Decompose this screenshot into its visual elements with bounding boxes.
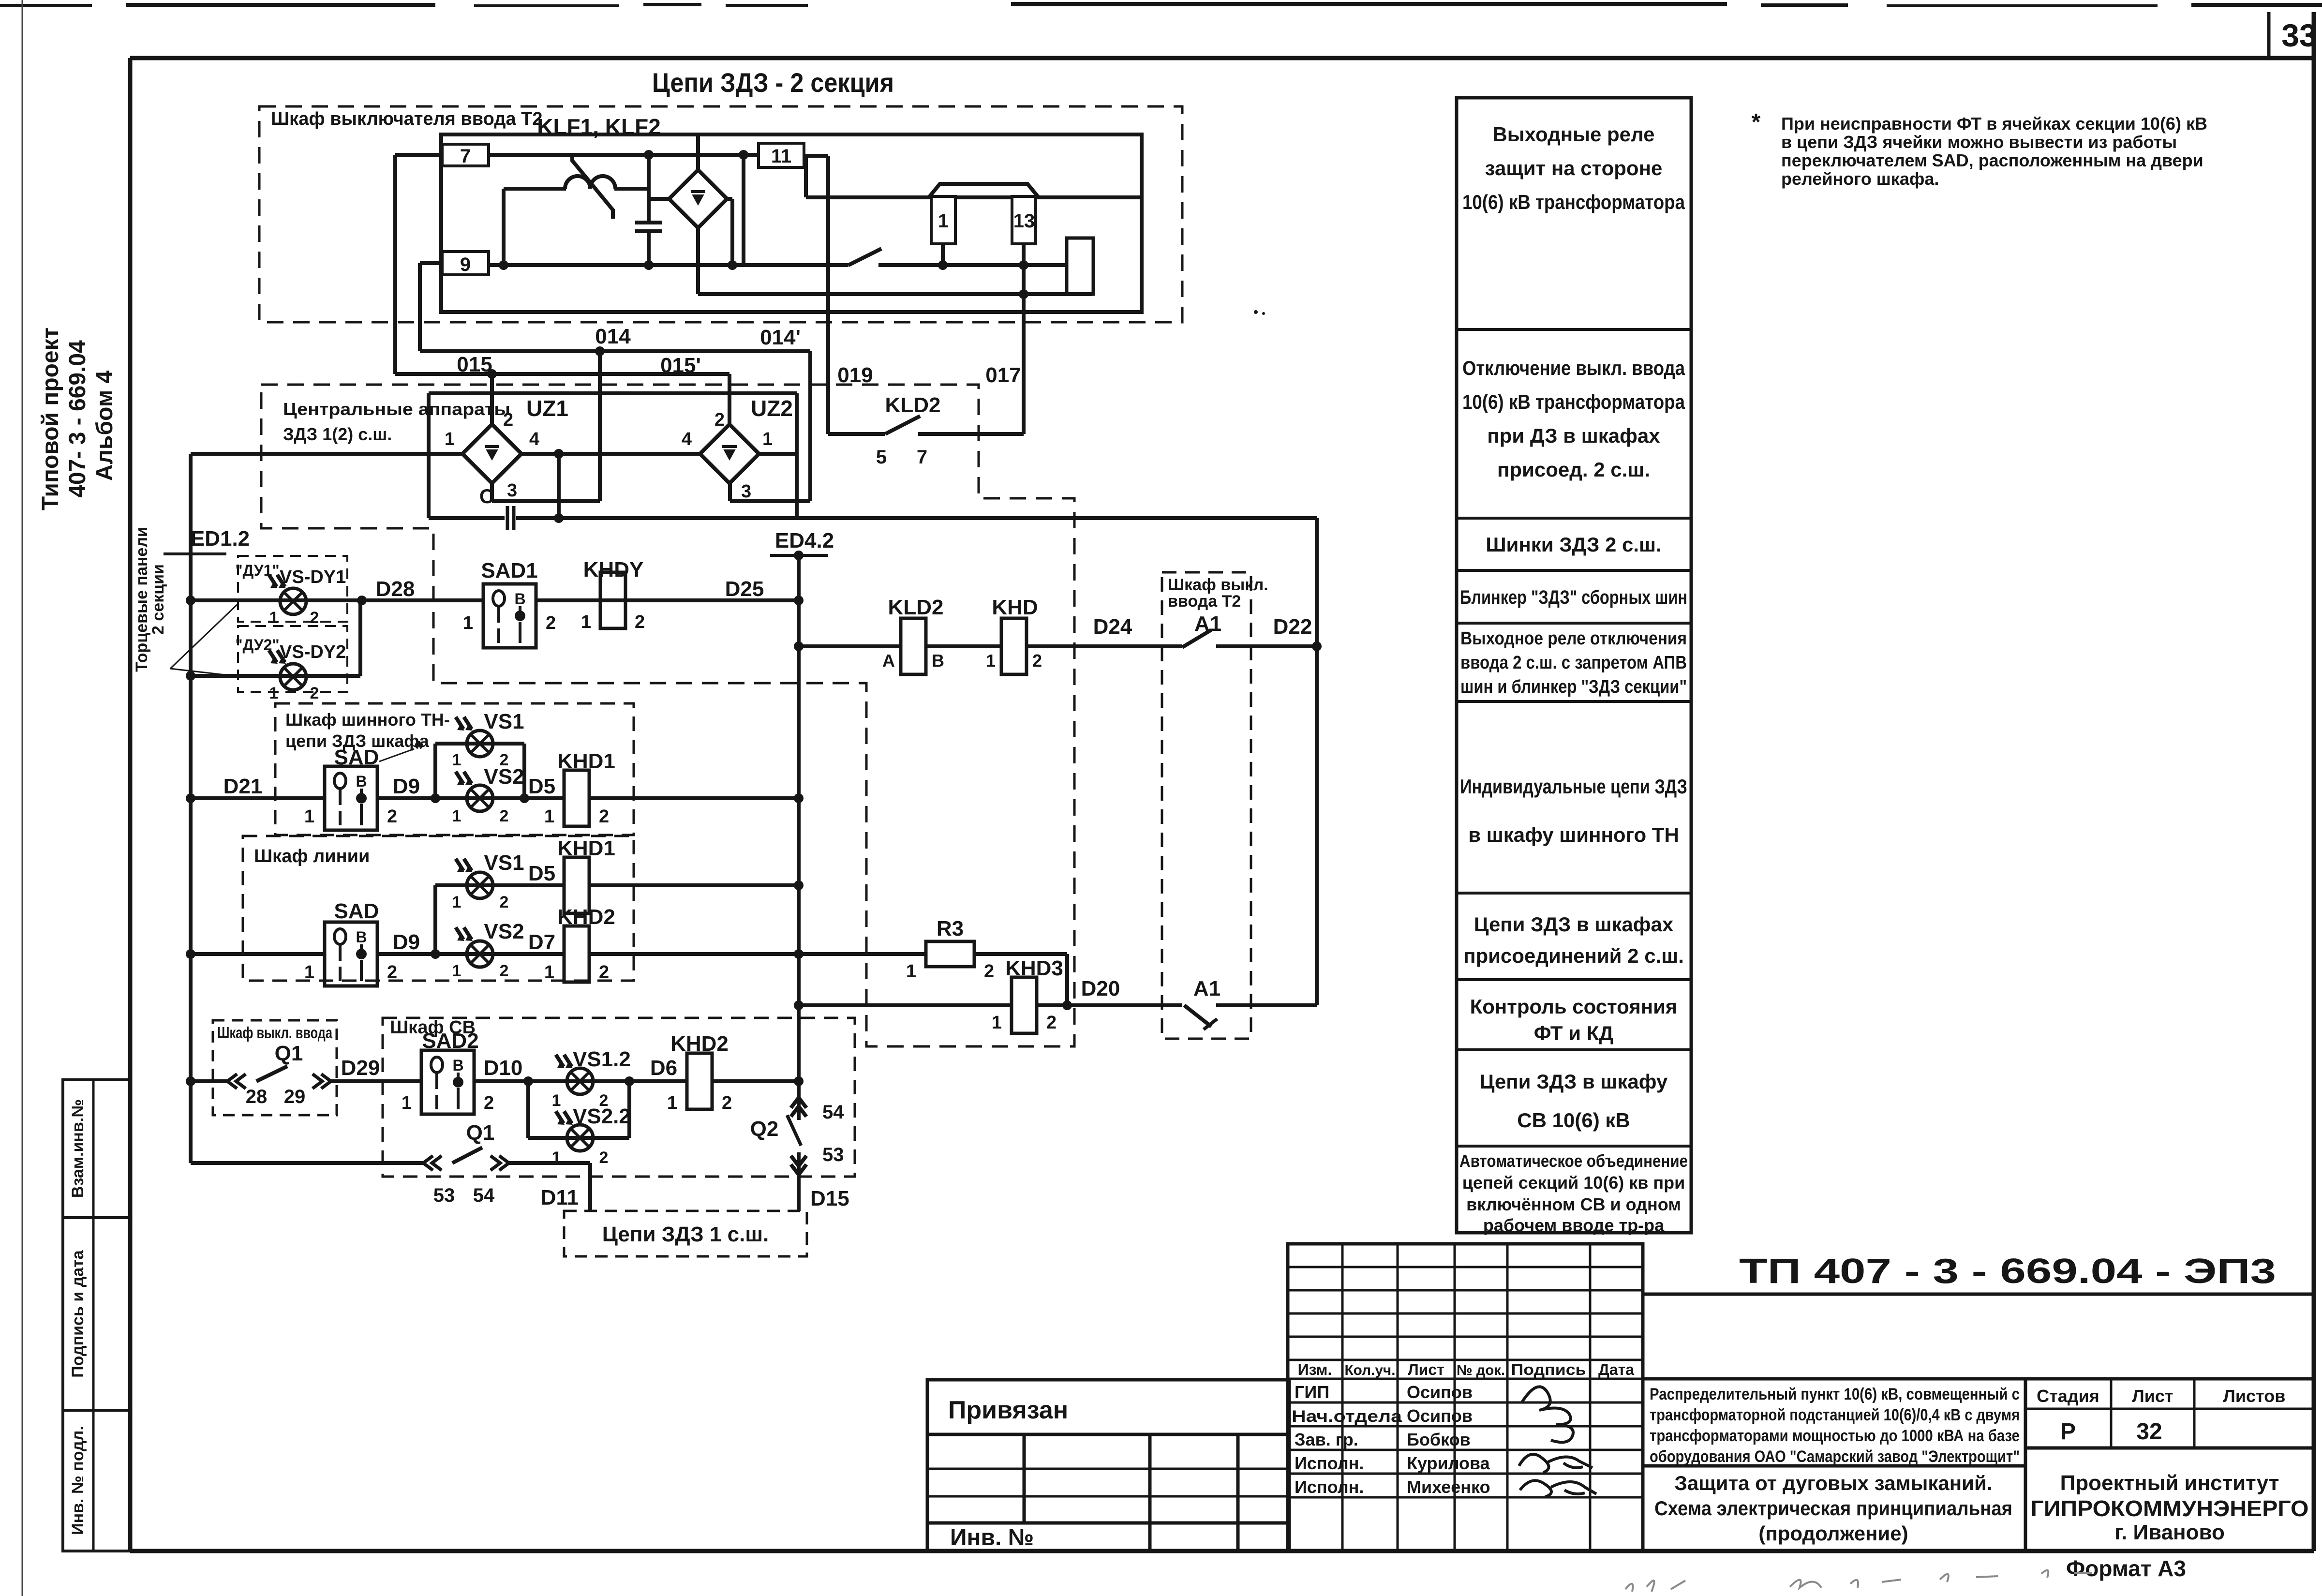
svg-text:2: 2 (503, 410, 513, 430)
svg-text:Взам.инв.№: Взам.инв.№ (69, 1099, 87, 1198)
wire vertical 1341 with capacitor (644, 150, 654, 270)
wire D29 row (191, 1079, 421, 1083)
solid box UZ1 UZ2 (429, 393, 797, 518)
svg-text:Отключение выкл. ввода: Отключение выкл. ввода (1462, 357, 1685, 379)
dashed box Шкаф шинного ТН (275, 703, 634, 835)
wire 014' drop to UZ2 pin3 (730, 351, 810, 501)
svg-text:UZ1: UZ1 (526, 396, 568, 421)
wire rail 014 (420, 346, 810, 356)
svg-text:014': 014' (760, 326, 801, 349)
svg-text:защит на стороне: защит на стороне (1485, 157, 1663, 179)
asterisk leader (379, 737, 423, 761)
switch SAD (ТН) (325, 766, 377, 830)
svg-text:присоединений 2 с.ш.: присоединений 2 с.ш. (1463, 944, 1684, 967)
svg-text:VS-DY1: VS-DY1 (280, 567, 346, 587)
wire terminal row y408 (806, 195, 1142, 199)
wire relay left lead (1024, 263, 1067, 267)
svg-text:"ДУ2": "ДУ2" (235, 636, 279, 654)
svg-text:ввода 2 с.ш. с запретом АПВ: ввода 2 с.ш. с запретом АПВ (1460, 653, 1687, 673)
lamp VS-DY1 (280, 588, 306, 614)
svg-text:Кол.уч.: Кол.уч. (1345, 1362, 1396, 1378)
svg-text:Блинкер "ЗДЗ" сборных шин: Блинкер "ЗДЗ" сборных шин (1460, 587, 1687, 608)
svg-text:оборудования ОАО "Самарский за: оборудования ОАО "Самарский завод "Элект… (1650, 1447, 2020, 1466)
surge suppressor symbol (565, 153, 615, 219)
svg-text:Схема электрическая принципиал: Схема электрическая принципиальная (1654, 1497, 2012, 1520)
svg-text:Проектный институт: Проектный институт (2060, 1471, 2279, 1495)
varistor branch vertical (502, 189, 506, 265)
svg-text:R3: R3 (937, 917, 964, 940)
svg-text:ГИП: ГИП (1295, 1382, 1329, 1402)
wire 019 net vertical (826, 156, 830, 434)
svg-text:D9: D9 (393, 775, 420, 798)
wire diamond top lead (696, 136, 700, 170)
dashed box Шкаф выкл ввода Т2 right (1162, 572, 1251, 1039)
right description table (1457, 98, 1691, 1233)
blade Q1 lower (452, 1148, 482, 1163)
svg-text:VS1: VS1 (484, 851, 524, 875)
svg-text:1: 1 (552, 1091, 561, 1110)
svg-text:1: 1 (402, 1093, 412, 1113)
mechanical link bracket over 1-13 (929, 184, 1039, 197)
table row 1 text (1462, 123, 1685, 213)
net ED1.2 (164, 527, 250, 554)
svg-text:Бобков: Бобков (1407, 1430, 1471, 1449)
svg-text:цепей секций 10(6) кв при: цепей секций 10(6) кв при (1462, 1173, 1685, 1193)
svg-text:Q2: Q2 (750, 1117, 779, 1141)
svg-text:32: 32 (2136, 1419, 2162, 1445)
table row 6 text (1460, 775, 1687, 846)
resistor R3 (926, 941, 974, 967)
svg-text:B: B (452, 1057, 463, 1074)
dashed box Шкаф линии (243, 836, 634, 981)
svg-text:D11: D11 (541, 1186, 579, 1209)
wire diamond bottom loop to relay (698, 228, 1092, 299)
blade Q1 upper (256, 1066, 287, 1081)
wire terminal1 lead (938, 244, 948, 270)
page number 33 box (2269, 12, 2317, 58)
wire 9 row right part (878, 263, 1024, 267)
rectifier UZ2 (700, 424, 759, 483)
svg-text:1: 1 (445, 429, 455, 449)
svg-text:28: 28 (246, 1086, 268, 1107)
svg-text:трансформаторами мощностью до: трансформаторами мощностью до 1000 кВА н… (1650, 1427, 2020, 1445)
svg-text:017: 017 (985, 363, 1021, 387)
capacitor C plates (507, 506, 514, 530)
diode bridge KLF (669, 170, 727, 228)
revision table (1288, 1244, 1643, 1551)
svg-text:9: 9 (460, 254, 471, 275)
svg-text:2: 2 (310, 609, 319, 627)
svg-text:Шкаф шинного ТН-: Шкаф шинного ТН- (285, 710, 450, 730)
switch SAD2 (421, 1050, 474, 1114)
svg-text:Контроль состояния: Контроль состояния (1470, 995, 1678, 1018)
svg-text:1: 1 (544, 806, 554, 827)
svg-text:Нач.отдела: Нач.отдела (1292, 1407, 1402, 1426)
wire KHD3 row (794, 1000, 1182, 1010)
bus bottom with capacitor C (429, 516, 1317, 520)
terminal 1 (931, 196, 955, 244)
svg-text:1: 1 (304, 806, 314, 827)
svg-text:включённом СВ и одном: включённом СВ и одном (1466, 1194, 1681, 1214)
svg-text:53: 53 (433, 1185, 455, 1206)
svg-text:VS1: VS1 (484, 710, 524, 733)
lamp VS1 line (467, 872, 493, 898)
svg-text:B: B (514, 590, 525, 608)
svg-text:ЗДЗ 1(2) с.ш.: ЗДЗ 1(2) с.ш. (283, 424, 392, 444)
dashed box Шкаф выкл. ввода (213, 1020, 337, 1115)
contact A1 lower blade (1184, 1005, 1217, 1029)
svg-text:KHDY: KHDY (583, 558, 644, 582)
svg-text:Зав. гр.: Зав. гр. (1295, 1430, 1358, 1449)
svg-text:"ДУ1": "ДУ1" (235, 562, 279, 579)
left attribute boxes (Взам.инв.№ / Подпись и дата / Инв.№ подл.) (63, 1080, 130, 1551)
svg-text:A: A (882, 651, 895, 671)
terminal 7 (442, 144, 489, 167)
svg-text:ED4.2: ED4.2 (775, 529, 834, 552)
svg-text:KHD1: KHD1 (557, 749, 615, 773)
svg-text:D9: D9 (393, 930, 420, 954)
lamp VS2.2 (567, 1125, 593, 1151)
wire 7 row (489, 153, 759, 157)
signatures (1519, 1387, 1596, 1497)
svg-text:SAD: SAD (334, 746, 379, 769)
svg-text:СВ 10(6) кВ: СВ 10(6) кВ (1517, 1109, 1630, 1132)
svg-text:Подпись и дата: Подпись и дата (69, 1250, 87, 1378)
blade Q2 (787, 1115, 801, 1146)
table row 10 text (1459, 1151, 1688, 1235)
sheet left edge line (22, 0, 23, 1596)
svg-text:KHD2: KHD2 (557, 905, 615, 929)
svg-text:Осипов: Осипов (1407, 1382, 1473, 1402)
svg-text:D25: D25 (725, 577, 764, 601)
svg-text:D10: D10 (484, 1056, 523, 1080)
svg-text:1: 1 (452, 893, 461, 911)
svg-text:1: 1 (452, 751, 461, 769)
svg-text:2: 2 (500, 893, 509, 911)
svg-text:2: 2 (635, 612, 645, 632)
svg-text:ED1.2: ED1.2 (191, 527, 250, 551)
svg-text:7: 7 (917, 447, 927, 468)
svg-text:2: 2 (546, 613, 556, 633)
revision names (1292, 1382, 1490, 1497)
leader lines (170, 604, 238, 676)
svg-text:1: 1 (304, 962, 314, 983)
svg-text:Инв. №: Инв. № (950, 1525, 1034, 1551)
svg-text:D6: D6 (650, 1056, 677, 1080)
lamp VS1.2 (567, 1068, 593, 1094)
svg-text:Цепи ЗДЗ в шкафу: Цепи ЗДЗ в шкафу (1480, 1070, 1668, 1093)
lamp VS1 ТН branch (435, 744, 524, 798)
wire D20 right segment (1216, 1003, 1317, 1007)
svg-text:Центральные аппараты: Центральные аппараты (283, 399, 510, 419)
svg-text:Исполн.: Исполн. (1295, 1477, 1364, 1497)
svg-text:Автоматическое объединение: Автоматическое объединение (1459, 1151, 1688, 1171)
svg-text:D28: D28 (376, 577, 415, 601)
connector arrows Q1 right (321, 1074, 331, 1089)
svg-text:Q1: Q1 (466, 1121, 495, 1145)
svg-text:2: 2 (599, 806, 609, 827)
svg-text:2: 2 (599, 962, 609, 983)
junction varistor bottom (499, 260, 508, 270)
relay coil KLF output (1067, 238, 1093, 294)
svg-text:2: 2 (387, 962, 397, 983)
wire VS1 line row (431, 880, 804, 959)
svg-text:UZ2: UZ2 (751, 396, 793, 421)
svg-text:KLD2: KLD2 (885, 393, 941, 417)
table row 3 text (1486, 533, 1661, 556)
relay coil KHD1 ТН (564, 770, 589, 826)
switch SAD line (325, 922, 377, 986)
relay coil KHD3 (1012, 977, 1037, 1033)
relay coil KHD2 CB (687, 1053, 712, 1109)
svg-text:13: 13 (1013, 210, 1035, 232)
svg-text:Шкаф выкл.: Шкаф выкл. (1168, 576, 1268, 594)
relay contact KLD2 top (828, 416, 1024, 434)
title block Привязан box (927, 1380, 1289, 1551)
svg-text:D22: D22 (1273, 615, 1312, 639)
svg-text:D29: D29 (341, 1056, 380, 1080)
svg-text:D5: D5 (528, 775, 555, 798)
stray mark (1254, 310, 1265, 315)
sheet title (1654, 1472, 2012, 1545)
svg-text:Шкаф линии: Шкаф линии (254, 846, 370, 866)
svg-text:VS2: VS2 (484, 765, 524, 789)
wire 9 row (489, 263, 848, 267)
svg-text:KHD3: KHD3 (1005, 956, 1063, 980)
svg-text:KHD2: KHD2 (670, 1032, 729, 1056)
rotated label Торцевые панели 2 секции (133, 527, 167, 672)
svg-text:D21: D21 (223, 775, 263, 798)
svg-text:014: 014 (595, 325, 631, 348)
svg-text:2: 2 (714, 410, 725, 430)
svg-text:Изм.: Изм. (1298, 1361, 1332, 1378)
lamp VS2 ТН (467, 785, 493, 811)
dashed box Шкаф СВ (383, 1018, 855, 1177)
svg-text:29: 29 (284, 1086, 306, 1107)
svg-text:1: 1 (452, 962, 461, 980)
svg-text:Распределительный пункт 10(6): Распределительный пункт 10(6) кВ, совмещ… (1650, 1385, 2020, 1403)
connector arrows Q2 up (797, 1099, 801, 1120)
svg-text:2: 2 (387, 806, 397, 827)
stage header (2037, 1386, 2285, 1406)
table row 5 text (1460, 628, 1687, 697)
svg-text:в цепи ЗДЗ ячейки можно вывест: в цепи ЗДЗ ячейки можно вывести из работ… (1781, 132, 2177, 152)
svg-text:Q1: Q1 (275, 1042, 303, 1065)
switch SAD1 (483, 584, 536, 648)
svg-text:1: 1 (762, 429, 773, 449)
wire main line row (191, 949, 804, 959)
relay coil KLD2 (901, 618, 926, 674)
svg-text:B: B (356, 773, 367, 790)
svg-text:Курилова: Курилова (1407, 1453, 1490, 1473)
rectifier UZ1 (462, 424, 521, 483)
wire D24 row (794, 641, 1182, 651)
svg-text:2: 2 (1046, 1013, 1057, 1033)
svg-text:Подпись: Подпись (1511, 1361, 1586, 1378)
table row 2 text (1462, 357, 1685, 481)
svg-text:A1: A1 (1193, 977, 1221, 1000)
svg-text:53: 53 (822, 1144, 844, 1165)
svg-text:Дата: Дата (1598, 1361, 1634, 1378)
relay KLF solid box (441, 134, 1142, 312)
contact A1 upper blade (1182, 630, 1211, 647)
dashed box ДУ2 (238, 626, 347, 692)
svg-text:2: 2 (984, 961, 994, 982)
connector arrows Q1 left (227, 1074, 237, 1089)
table row 7 text (1463, 913, 1684, 967)
svg-text:Исполн.: Исполн. (1295, 1453, 1364, 1473)
svg-text:Защита от дуговых замыканий.: Защита от дуговых замыканий. (1675, 1472, 1993, 1494)
svg-text:Цепи ЗДЗ в шкафах: Цепи ЗДЗ в шкафах (1474, 913, 1674, 936)
scan edge artifact top (0, 2, 2322, 7)
svg-text:Михеенко: Михеенко (1407, 1477, 1490, 1497)
wire vertical 1537 (742, 155, 745, 265)
svg-text:2 секции: 2 секции (149, 564, 167, 635)
svg-text:2: 2 (310, 684, 319, 702)
svg-text:рабочем вводе тр-ра: рабочем вводе тр-ра (1483, 1215, 1665, 1235)
svg-text:Лист: Лист (1408, 1361, 1444, 1378)
svg-text:5: 5 (876, 447, 887, 468)
svg-text:Стадия: Стадия (2037, 1386, 2099, 1406)
wire right vertical 2733 (1312, 518, 1322, 1005)
svg-text:7: 7 (460, 146, 471, 167)
wire 11 to 019 (804, 156, 828, 197)
svg-text:1: 1 (452, 807, 461, 825)
svg-text:SAD: SAD (334, 899, 379, 923)
wire UZ1 pin3 to rail 014 (492, 351, 600, 501)
svg-text:Альбом 4: Альбом 4 (92, 370, 118, 481)
svg-text:KHD: KHD (992, 596, 1038, 619)
svg-text:1: 1 (992, 1013, 1002, 1033)
svg-text:При неисправности ФТ в ячейках: При неисправности ФТ в ячейках секции 10… (1781, 114, 2207, 134)
svg-text:С: С (479, 485, 494, 507)
svg-text:2: 2 (1032, 651, 1042, 671)
relay coil KHD (1001, 618, 1027, 674)
wire ED4.2 bus (794, 555, 804, 1098)
svg-text:Выходные реле: Выходные реле (1492, 123, 1654, 146)
revision header labels (1298, 1361, 1635, 1378)
svg-text:ввода Т2: ввода Т2 (1168, 592, 1241, 611)
table row 4 text (1460, 587, 1687, 608)
svg-text:Индивидуальные цепи ЗДЗ: Индивидуальные цепи ЗДЗ (1460, 775, 1687, 798)
lamp VS1 ТН (467, 731, 493, 757)
svg-text:при ДЗ в шкафах: при ДЗ в шкафах (1487, 424, 1660, 447)
svg-text:шин и блинкер "ЗДЗ секции": шин и блинкер "ЗДЗ секции" (1460, 677, 1687, 697)
svg-text:1: 1 (581, 612, 591, 632)
wire lower loop (191, 1081, 590, 1211)
terminal 11 (759, 143, 804, 167)
svg-text:присоед. 2 с.ш.: присоед. 2 с.ш. (1497, 458, 1650, 481)
wire R3 row (799, 954, 1072, 1010)
wire D21 row (191, 793, 804, 803)
svg-text:Шинки ЗДЗ 2 с.ш.: Шинки ЗДЗ 2 с.ш. (1486, 533, 1661, 556)
svg-text:A1: A1 (1194, 612, 1221, 636)
svg-text:3: 3 (507, 480, 517, 501)
object description (1650, 1385, 2020, 1466)
svg-text:Лист: Лист (2132, 1386, 2173, 1406)
wire lead 9 to rail 015 (420, 263, 442, 351)
svg-text:D15: D15 (810, 1187, 849, 1210)
svg-text:Цепи ЗДЗ 1 с.ш.: Цепи ЗДЗ 1 с.ш. (602, 1223, 769, 1246)
pencil note artifact (1625, 1570, 2092, 1592)
dashed box ДУ1 (238, 556, 347, 622)
wire D10 segment (474, 1076, 687, 1086)
relay coil KHDY (600, 572, 625, 628)
svg-text:SAD2: SAD2 (422, 1029, 478, 1053)
svg-text:переключателем SAD, расположен: переключателем SAD, расположенным на две… (1781, 150, 2203, 170)
svg-text:10(6) кВ трансформатора: 10(6) кВ трансформатора (1462, 390, 1685, 413)
svg-text:трансформаторной подстанцией 1: трансформаторной подстанцией 10(6)/0,4 к… (1650, 1406, 2020, 1424)
svg-text:№ док.: № док. (1457, 1362, 1505, 1378)
svg-text:Шкаф выключателя ввода Т2: Шкаф выключателя ввода Т2 (271, 109, 542, 129)
svg-text:10(6) кВ трансформатора: 10(6) кВ трансформатора (1462, 191, 1685, 213)
svg-text:4: 4 (682, 429, 692, 449)
wire lead 7 to rail 014 (395, 155, 442, 374)
dashed box Шкаф выключателя ввода Т2 (259, 106, 1182, 322)
wire D28 D25 row (191, 596, 804, 605)
relay coil KHD2 line (564, 926, 589, 982)
relay coil KHD1 line (564, 857, 589, 913)
svg-text:015': 015' (660, 354, 701, 377)
svg-text:33: 33 (2281, 17, 2317, 53)
svg-text:D5: D5 (528, 862, 555, 885)
wire rail 015 (395, 369, 729, 379)
svg-text:в шкафу шинного ТН: в шкафу шинного ТН (1468, 823, 1679, 846)
svg-text:1: 1 (667, 1093, 677, 1113)
wire left bus (186, 454, 195, 1163)
svg-text:г. Иваново: г. Иваново (2114, 1521, 2225, 1544)
svg-text:VS2: VS2 (484, 920, 524, 943)
svg-text:Листов: Листов (2223, 1386, 2286, 1406)
svg-text:Шкаф выкл. ввода: Шкаф выкл. ввода (217, 1024, 332, 1042)
svg-text:Выходное реле отключения: Выходное реле отключения (1460, 628, 1687, 649)
svg-text:Р: Р (2060, 1419, 2076, 1445)
svg-text:1: 1 (269, 684, 279, 702)
svg-text:1: 1 (906, 961, 916, 982)
switch blade KLF (848, 249, 881, 265)
wire UZ1 pin4 drop to bus (554, 454, 564, 523)
svg-text:11: 11 (771, 146, 791, 167)
stage values (2060, 1419, 2162, 1445)
svg-text:2: 2 (500, 807, 509, 825)
capacitor plates KLF (635, 223, 662, 231)
connector arrows Q1 lower right (499, 1156, 509, 1170)
svg-text:1: 1 (986, 651, 996, 671)
svg-text:*: * (1752, 109, 1761, 135)
svg-text:VS-DY2: VS-DY2 (280, 642, 346, 662)
svg-text:KLD2: KLD2 (888, 596, 944, 619)
terminal 13 (1012, 196, 1036, 244)
svg-text:B: B (932, 651, 944, 671)
svg-text:Привязан: Привязан (948, 1396, 1068, 1424)
svg-text:ФТ и КД: ФТ и КД (1534, 1022, 1614, 1044)
svg-text:Формат А3: Формат А3 (2066, 1556, 2186, 1581)
wire D15 drop (797, 1175, 801, 1211)
svg-text:D24: D24 (1093, 615, 1132, 639)
svg-text:Инв. № подл.: Инв. № подл. (69, 1426, 87, 1535)
svg-text:KHD1: KHD1 (557, 836, 615, 860)
svg-text:2: 2 (500, 962, 509, 980)
svg-text:1: 1 (938, 210, 949, 232)
svg-text:54: 54 (822, 1102, 844, 1123)
wire UZ1 pin2 drop (490, 374, 494, 424)
lamp VS-DY2 (280, 664, 306, 690)
svg-text:D7: D7 (528, 930, 555, 954)
wire diamond right vertex to 9 row (727, 199, 737, 270)
svg-text:1: 1 (463, 613, 473, 633)
svg-text:1: 1 (269, 609, 279, 627)
branch VS2.2 (528, 1081, 629, 1138)
